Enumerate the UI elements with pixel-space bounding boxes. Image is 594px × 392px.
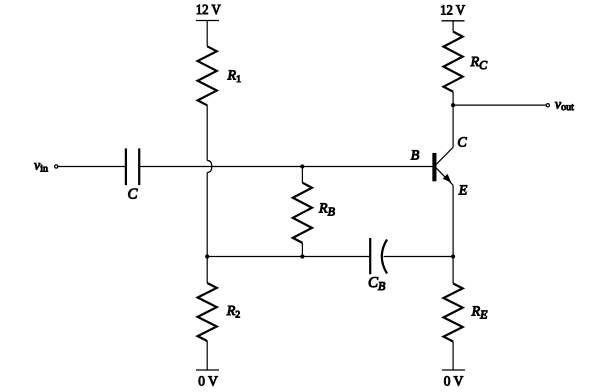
svg-text:RB: RB [318,201,336,218]
capacitor C left plate [125,148,127,185]
ground bar 0V left [196,369,219,371]
svg-text:R1: R1 [227,69,242,86]
svg-text:12 V: 12 V [440,4,465,19]
supply bar 12V left [196,20,219,22]
transistor Q1 base bar [432,153,436,181]
svg-text:B: B [411,149,420,164]
svg-text:C: C [127,186,138,202]
capacitor CB curved plate [382,240,387,274]
wire R2 to ground [206,341,208,370]
svg-text:E: E [458,184,468,199]
wire R1 to hop [206,105,208,160]
wire RC to node [452,92,454,105]
transistor Q1 collector diagonal [434,147,453,166]
resistor R1 [198,46,217,105]
wire emitter [452,185,454,256]
resistor R2 [198,283,217,341]
ground bar 0V right [442,369,465,371]
node junction RB bottom [300,254,304,258]
node junction emitter RE [451,254,455,258]
wire v_in to C [58,166,126,168]
wire collector [452,105,454,147]
wire bottom rail left [207,256,370,258]
svg-text:CB: CB [368,275,386,293]
capacitor CB left plate [369,238,371,274]
wire supply to R1 [206,21,208,47]
wire node to vout terminal [453,104,546,106]
node junction left bottom [205,254,209,258]
wire RE to ground [452,342,454,371]
capacitor C right plate [138,148,140,185]
svg-text:0 V: 0 V [444,374,464,389]
svg-text:0 V: 0 V [198,375,218,390]
supply bar 12V right [442,20,465,22]
wire CB to emitter node [384,256,454,258]
wire node to R2 [206,257,208,284]
wire RB to bottom rail [301,243,303,257]
svg-text:vin: vin [34,159,48,175]
svg-text:RC: RC [470,55,489,72]
wire supply to RC [452,21,454,32]
svg-text:vout: vout [555,97,574,113]
node junction collector vout [451,103,455,107]
resistor RC [444,32,463,92]
transistor Q1 emitter diagonal [434,166,453,185]
svg-text:R2: R2 [226,304,241,321]
wire hop to node [206,173,208,257]
resistor RB [293,183,312,243]
wire node to RB [301,167,303,183]
node junction base RB [300,164,304,168]
resistor RE [444,284,463,342]
svg-text:RE: RE [471,305,489,322]
transistor Q1 emitter arrowhead [443,174,452,183]
svg-text:C: C [457,135,467,150]
wire C to transistor base [139,166,432,168]
terminal v_in [55,165,58,168]
wire node to RE [452,257,454,284]
wire hop over base wire [207,161,212,173]
svg-text:12 V: 12 V [196,3,221,18]
terminal v_out [546,104,549,107]
